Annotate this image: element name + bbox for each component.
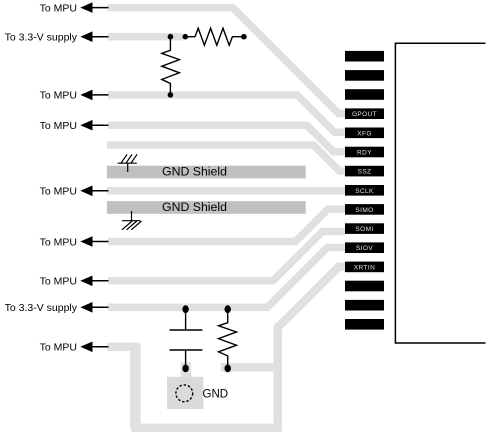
pin 4 GPOUT bbox=[345, 108, 384, 119]
pin 7 SSZ bbox=[345, 166, 384, 177]
arrowhead row8 bbox=[80, 236, 92, 247]
wire trace row6 To MPU to SCLK bbox=[107, 187, 345, 195]
wire trace row3 To MPU to XFG bbox=[108, 95, 345, 132]
resistor R3 vertical bbox=[219, 309, 237, 369]
arrowhead row2 bbox=[80, 31, 92, 42]
arrow line row6 bbox=[91, 190, 109, 192]
arrowhead row11 bbox=[80, 342, 92, 353]
svg-text:SCLK: SCLK bbox=[355, 188, 374, 195]
wire trace row8 To MPU to SIMO bbox=[108, 209, 345, 241]
arrowhead row6 bbox=[80, 186, 92, 197]
wire trace row5 to SSZ bbox=[107, 145, 345, 171]
wire trace row10 To 3.3-V supply to SIOV bbox=[108, 248, 345, 308]
wire stub capacitor C1 bottom to GND via bbox=[181, 362, 191, 377]
wire trace row2 To 3.3-V supply bbox=[108, 33, 184, 41]
junction dot node H resistor R3 bottom bbox=[225, 365, 231, 373]
svg-text:To MPU: To MPU bbox=[40, 2, 77, 14]
svg-text:To 3.3-V supply: To 3.3-V supply bbox=[5, 32, 78, 44]
pin 1 bbox=[345, 51, 384, 62]
svg-text:GND Shield: GND Shield bbox=[162, 200, 227, 214]
pin 15 bbox=[345, 319, 384, 330]
svg-text:SOMI: SOMI bbox=[355, 226, 373, 233]
GND shield bar 1 bbox=[107, 166, 306, 179]
resistor R1 horizontal bbox=[185, 28, 244, 45]
pin 6 RDY bbox=[345, 147, 384, 158]
junction dot node F row10 resistor R3 top bbox=[225, 305, 231, 313]
arrow line row3 bbox=[91, 94, 109, 96]
arrow line row10 bbox=[91, 306, 109, 308]
junction dot node A row2 left bbox=[168, 34, 174, 40]
pin 2 bbox=[345, 70, 384, 81]
pin 14 bbox=[345, 300, 384, 311]
arrowhead row10 bbox=[80, 302, 92, 313]
svg-text:To MPU: To MPU bbox=[40, 276, 77, 288]
svg-text:XRTIN: XRTIN bbox=[354, 264, 375, 271]
capacitor C1 bottom stem bbox=[185, 351, 187, 369]
svg-text:GPOUT: GPOUT bbox=[352, 111, 377, 118]
arrow line row11 bbox=[91, 346, 109, 348]
svg-text:SIOV: SIOV bbox=[356, 245, 373, 252]
GND via dashed circle bbox=[176, 385, 193, 402]
GND shield bar 2 bbox=[107, 201, 306, 214]
arrowhead row4 bbox=[80, 120, 92, 131]
arrow line row4 bbox=[91, 124, 109, 126]
pin 9 SIMO bbox=[345, 204, 384, 215]
ground symbol 1 above shield bar 1 bbox=[118, 154, 138, 172]
wire trace left vertical widening bbox=[130, 344, 141, 428]
arrow line row1 bbox=[91, 7, 109, 9]
wire trace row9 To MPU to SOMI bbox=[108, 232, 345, 281]
svg-text:XFG: XFG bbox=[357, 130, 372, 137]
IC pins column bbox=[345, 51, 384, 330]
capacitor C1 bottom plate bbox=[170, 349, 203, 351]
svg-text:To MPU: To MPU bbox=[40, 342, 77, 354]
pin 5 XFG bbox=[345, 128, 384, 139]
ground symbol 2 below shield bar 2 bbox=[122, 211, 142, 230]
pin 8 SCLK bbox=[345, 185, 384, 196]
junction dot node G capacitor bottom bbox=[182, 365, 188, 373]
junction dot node C resistor R1 right bbox=[241, 34, 247, 40]
pin 10 SOMI bbox=[345, 223, 384, 234]
wire trace row11 To MPU down to bottom net and XRTIN bbox=[107, 267, 345, 428]
svg-text:SSZ: SSZ bbox=[358, 169, 372, 176]
IC body outline U1 bbox=[395, 43, 485, 343]
capacitor C1 top plate bbox=[170, 329, 203, 331]
svg-text:GND: GND bbox=[203, 389, 229, 401]
svg-text:SIMO: SIMO bbox=[355, 207, 373, 214]
junction dot node B row2 resistor left bbox=[183, 34, 189, 40]
arrowhead row1 bbox=[80, 2, 92, 13]
svg-text:To 3.3-V supply: To 3.3-V supply bbox=[5, 302, 78, 314]
pin 12 XRTIN bbox=[345, 262, 384, 273]
wire trace row1 To MPU to GPOUT bbox=[108, 8, 345, 114]
svg-text:To MPU: To MPU bbox=[40, 236, 77, 248]
svg-text:To MPU: To MPU bbox=[40, 90, 77, 102]
resistor R2 vertical bbox=[162, 37, 180, 95]
pin 11 SIOV bbox=[345, 242, 384, 253]
junction dot node D row3 bbox=[168, 92, 174, 98]
capacitor C1 top stem bbox=[185, 309, 187, 329]
arrow line row8 bbox=[91, 241, 109, 243]
arrowhead row3 bbox=[80, 90, 92, 101]
pin 13 bbox=[345, 281, 384, 292]
junction dot node E row10 capacitor top bbox=[182, 305, 188, 313]
GND via pad square bbox=[167, 377, 203, 409]
arrow line row9 bbox=[91, 280, 109, 282]
svg-text:RDY: RDY bbox=[357, 150, 372, 157]
arrowhead row9 bbox=[80, 276, 92, 287]
svg-text:To MPU: To MPU bbox=[40, 120, 77, 132]
arrow line row2 bbox=[91, 36, 109, 38]
wire trace row4 To MPU to RDY bbox=[108, 125, 345, 152]
svg-text:GND Shield: GND Shield bbox=[162, 165, 227, 179]
svg-text:To MPU: To MPU bbox=[40, 186, 77, 198]
wire trace resistor R3 bottom to vertical net bbox=[221, 363, 278, 372]
pin 3 bbox=[345, 89, 384, 100]
